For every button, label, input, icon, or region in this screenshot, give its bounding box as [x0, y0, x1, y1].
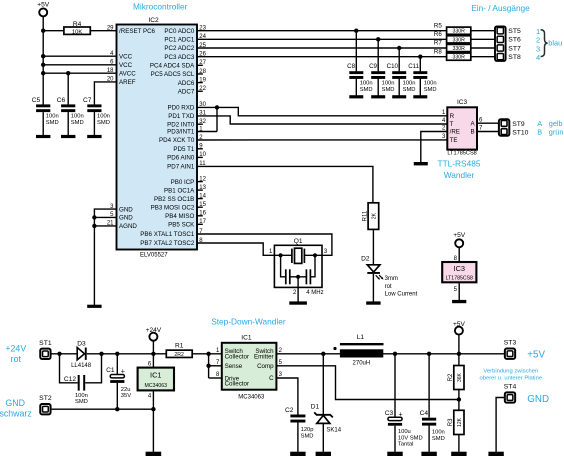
resistor R11: [363, 203, 379, 230]
connector ST4: [504, 384, 517, 403]
wire C5 to ground: [42, 112, 44, 135]
wire C3 lower lead: [394, 426, 396, 452]
connector ST5 label: [508, 28, 521, 35]
svg-text:R7: R7: [434, 40, 442, 47]
svg-text:PB4 MISO: PB4 MISO: [165, 213, 194, 220]
svg-text:R5: R5: [434, 22, 442, 29]
node junction AGND: [92, 224, 96, 228]
capacitor C7: [83, 97, 110, 126]
svg-text:blau: blau: [548, 39, 562, 48]
svg-text:/RESET PC6: /RESET PC6: [119, 28, 156, 35]
svg-text:IC2: IC2: [148, 17, 159, 24]
ground C11: [413, 95, 427, 98]
svg-text:IC1: IC1: [241, 335, 252, 342]
LED D2: [361, 255, 418, 297]
wire C7 to ground: [93, 112, 95, 135]
svg-text:C9: C9: [369, 63, 377, 70]
resistor R3: [448, 410, 464, 434]
svg-text:PB2 SS OC1B: PB2 SS OC1B: [154, 196, 194, 203]
wire R4 left lead: [43, 30, 64, 32]
svg-text:ST9: ST9: [512, 121, 525, 128]
svg-text:SMD: SMD: [97, 120, 110, 126]
wire C3 upper lead: [394, 354, 396, 418]
svg-text:PD6 AIN0: PD6 AIN0: [167, 155, 195, 162]
wire D1 upper lead: [322, 354, 324, 415]
resistor R8: [434, 48, 471, 60]
wire R3 to ground: [458, 435, 460, 452]
svg-text:Ein- / Ausgänge: Ein- / Ausgänge: [471, 3, 530, 13]
svg-text:PB3 MOSI OC2: PB3 MOSI OC2: [151, 204, 195, 211]
wire +5V to rail: [458, 334, 460, 354]
svg-text:1: 1: [536, 27, 540, 36]
wire IC3 B to ST10: [477, 131, 499, 133]
node junction feedback divider: [457, 397, 461, 401]
capacitor C4: [420, 410, 445, 442]
svg-text:ST2: ST2: [39, 395, 52, 402]
wire D1 lower lead: [322, 423, 324, 452]
wire IC1 pin4 to ground: [148, 390, 154, 452]
svg-text:Step-Down-Wandler: Step-Down-Wandler: [211, 316, 286, 326]
svg-text:10K: 10K: [72, 29, 82, 35]
node junction +5V/VCC pin6: [41, 63, 45, 67]
svg-text:R1: R1: [175, 342, 184, 349]
svg-text:100n: 100n: [382, 81, 395, 87]
wire PD0 RXD to IC3 R: [197, 107, 447, 115]
svg-text:PC1 ADC1: PC1 ADC1: [164, 37, 194, 44]
svg-text:SMD: SMD: [424, 87, 437, 93]
node junction C9: [376, 37, 380, 41]
wire C4 upper lead: [428, 354, 430, 418]
svg-text:Wandler: Wandler: [444, 170, 475, 180]
wire R7 to ST7: [471, 47, 495, 49]
label +5V output: [527, 349, 545, 360]
svg-text:100n: 100n: [97, 114, 110, 120]
svg-text:SMD: SMD: [301, 433, 314, 439]
svg-text:120p: 120p: [301, 427, 314, 433]
svg-text:L1: L1: [357, 334, 365, 341]
wire pin3 C to C2: [276, 378, 298, 415]
svg-text:C: C: [269, 375, 274, 382]
node junction IC1 pin1/7: [206, 352, 210, 356]
svg-text:4: 4: [536, 53, 540, 62]
connector ST3: [504, 339, 517, 358]
capacitor C3 (Tantal): [385, 410, 423, 447]
label blau: [548, 39, 562, 48]
svg-text:PD2 INT0: PD2 INT0: [167, 121, 195, 128]
wire R11 to D2: [372, 229, 374, 264]
node junction C3: [393, 352, 397, 356]
wire +5V rail vertical (top left): [42, 16, 44, 104]
ground ST4: [488, 452, 503, 456]
svg-text:PB7 XTAL2 TOSC2: PB7 XTAL2 TOSC2: [140, 240, 195, 247]
svg-text:Low Current: Low Current: [385, 291, 418, 297]
wire L1 to ST3 rail: [383, 353, 505, 355]
capacitor C1: [106, 367, 131, 399]
node junction C11: [418, 54, 422, 58]
capacitor C5: [32, 97, 59, 126]
svg-text:ADC7: ADC7: [178, 88, 195, 95]
svg-text:35V: 35V: [121, 393, 131, 399]
svg-text:100u: 100u: [398, 429, 411, 435]
svg-text:C2: C2: [285, 407, 294, 414]
svg-text:Q1: Q1: [294, 238, 303, 245]
svg-text:C7: C7: [83, 97, 92, 104]
svg-text:+24V: +24V: [5, 344, 26, 354]
wire PD7 AIN1 to R11: [197, 166, 373, 202]
svg-text:IC3: IC3: [457, 99, 468, 106]
svg-text:100n: 100n: [75, 393, 88, 399]
wire PC2 to R7: [197, 47, 447, 49]
wire C6 to AVCC: [67, 73, 69, 104]
wire C2 lower lead: [297, 423, 299, 452]
connector ST10 label: [512, 130, 528, 137]
ground C6: [61, 135, 75, 138]
connector ST6 label: [508, 37, 521, 44]
label pin number 2 (ST6): [536, 36, 540, 45]
svg-text:AGND: AGND: [119, 223, 137, 230]
wire D2 to ground: [372, 274, 374, 302]
capacitor C2: [285, 407, 314, 440]
IC IC1 MC34063 (main): [216, 335, 283, 401]
svg-text:B: B: [537, 128, 542, 137]
svg-text:R2: R2: [448, 373, 454, 381]
wire R2 to R3: [458, 390, 460, 411]
svg-text:D1: D1: [311, 403, 320, 410]
svg-text:100n: 100n: [424, 81, 437, 87]
svg-text:C3: C3: [385, 410, 394, 417]
label pin number 1 (ST5): [536, 27, 540, 36]
svg-text:SMD: SMD: [75, 399, 88, 405]
node junction pin4/GND rail: [151, 407, 155, 411]
node junction C1/GND rail: [115, 407, 119, 411]
svg-text:Emitter: Emitter: [254, 353, 274, 360]
label +24V rot: [5, 344, 26, 365]
svg-text:C1: C1: [106, 367, 115, 374]
svg-text:36K: 36K: [457, 372, 463, 382]
capacitor C12: [64, 375, 88, 405]
wire GND pin 5: [94, 216, 116, 218]
svg-text:PB0 ICP: PB0 ICP: [171, 179, 195, 186]
svg-text:18: 18: [107, 68, 114, 74]
resistor R1: [166, 342, 192, 358]
wire PB6 XTAL1 to Q1 pin3: [197, 234, 332, 255]
wire PB7 XTAL2 to Q1 pin1: [197, 243, 274, 255]
svg-text:330R: 330R: [452, 29, 465, 35]
svg-text:Collector: Collector: [225, 381, 249, 388]
svg-text:+: +: [399, 411, 403, 418]
svg-text:PC2 ADC2: PC2 ADC2: [164, 45, 194, 52]
svg-text:PB1 OC1A: PB1 OC1A: [164, 187, 195, 194]
svg-text:3: 3: [536, 44, 540, 53]
svg-text:GND: GND: [119, 206, 133, 213]
wire C9 upper lead: [377, 39, 379, 71]
label pin number 3 (ST7): [536, 44, 540, 53]
wire IC3 pin5 to ground: [454, 282, 460, 300]
node junction Sense: [206, 364, 210, 368]
svg-text:100n: 100n: [71, 114, 84, 120]
svg-text:SMD: SMD: [432, 436, 445, 442]
svg-text:R: R: [450, 113, 455, 120]
wire PC3 to R8: [197, 56, 447, 58]
svg-text:100n: 100n: [403, 81, 416, 87]
label GND schwarz: [0, 398, 32, 418]
connector ST8 label: [508, 54, 521, 61]
wire C4 lower lead: [428, 426, 430, 452]
svg-text:PD5 T1: PD5 T1: [173, 146, 194, 153]
svg-text:ST10: ST10: [512, 130, 528, 137]
ground IC2: [87, 305, 101, 308]
wire Comp feedback: [276, 366, 459, 400]
svg-text:PD7 AIN1: PD7 AIN1: [167, 164, 195, 171]
svg-text:Mikrocontroller: Mikrocontroller: [133, 1, 188, 11]
node junction +5V/R4: [41, 29, 45, 33]
wire C10 upper lead: [398, 48, 400, 71]
svg-text:+5V: +5V: [37, 1, 50, 8]
svg-text:C11: C11: [408, 63, 419, 70]
svg-text:TE: TE: [450, 137, 458, 144]
wire PD4 to IC3 TE: [197, 139, 447, 141]
ground C2: [290, 452, 305, 456]
svg-text:C12: C12: [64, 376, 76, 383]
node junction D1: [321, 352, 325, 356]
svg-text:oberer u. unterer Platine: oberer u. unterer Platine: [480, 376, 543, 382]
svg-text:C5: C5: [32, 97, 41, 104]
ground C7: [87, 135, 101, 138]
ground R3: [451, 452, 466, 456]
svg-text:330R: 330R: [452, 55, 465, 61]
wire ST1 to D3: [51, 353, 78, 355]
svg-text:20: 20: [107, 77, 114, 83]
wire AVCC pin 18: [43, 72, 116, 74]
svg-text:ELV05527: ELV05527: [140, 253, 168, 259]
svg-text:LT1785CS8: LT1785CS8: [447, 151, 476, 157]
capacitor C8: [347, 63, 372, 93]
ground D1: [316, 452, 331, 456]
svg-text:ST1: ST1: [39, 340, 52, 347]
svg-text:+5V: +5V: [527, 349, 545, 360]
svg-text:R8: R8: [434, 48, 442, 55]
connector ST1: [39, 340, 52, 359]
microcontroller IC2 ELV05527: [107, 17, 207, 259]
label B grün: [537, 128, 563, 137]
node junction C1: [115, 352, 119, 356]
wire C8 lower lead: [355, 79, 357, 96]
wire +24V node to IC1 pin6: [148, 354, 154, 368]
power +5V supply (IC3): [453, 232, 466, 247]
resistor R5: [434, 22, 471, 34]
wire /RE to ground: [421, 132, 448, 163]
svg-text:+24V: +24V: [146, 327, 162, 334]
wire unconnected pin stubs IC2 right: [197, 65, 203, 224]
svg-text:GND: GND: [5, 398, 25, 408]
svg-text:VCC: VCC: [119, 53, 133, 60]
power +5V supply (step-down): [453, 321, 466, 335]
svg-text:12K: 12K: [457, 417, 463, 427]
connector ST2: [39, 395, 52, 414]
crystal Q1 4MHz: [269, 238, 328, 302]
wire VCC pin 6: [43, 64, 116, 66]
svg-text:3mm: 3mm: [385, 276, 398, 282]
inductor L1: [333, 334, 383, 367]
svg-text:+5V: +5V: [453, 232, 466, 239]
svg-text:22u: 22u: [121, 387, 131, 393]
svg-text:+5V: +5V: [453, 321, 466, 328]
svg-text:PC4 ADC4 SDA: PC4 ADC4 SDA: [150, 63, 195, 70]
wire C1 upper lead: [116, 354, 118, 375]
svg-text:AREF: AREF: [119, 79, 136, 86]
wire C11 lower lead: [419, 79, 421, 96]
svg-text:GND: GND: [119, 215, 133, 222]
wire ST2 ground rail: [51, 408, 154, 410]
svg-text:MC34063: MC34063: [238, 394, 265, 400]
label Verbindung note: [480, 368, 543, 381]
svg-text:330R: 330R: [452, 37, 465, 43]
svg-text:ST3: ST3: [504, 339, 517, 346]
capacitor C10: [387, 63, 416, 93]
svg-text:100n: 100n: [432, 430, 445, 436]
label GND output: [527, 394, 549, 405]
svg-text:R3: R3: [448, 418, 454, 426]
wire RXD to PD3/INT1: [197, 107, 217, 131]
svg-text:R11: R11: [363, 210, 369, 221]
IC IC1 power block: [138, 368, 174, 391]
svg-text:PD4 XCK T0: PD4 XCK T0: [159, 137, 195, 144]
IC IC3 power block: [442, 262, 476, 282]
svg-text:ST5: ST5: [508, 28, 521, 35]
svg-text:330R: 330R: [452, 46, 465, 52]
svg-text:rot: rot: [385, 284, 392, 290]
svg-text:TTL-RS485: TTL-RS485: [438, 158, 481, 168]
svg-text:IC1: IC1: [150, 370, 162, 379]
label Ein-/Ausgänge heading: [471, 3, 530, 13]
svg-text:C10: C10: [387, 63, 399, 70]
svg-text:D2: D2: [361, 255, 370, 262]
diode D1 SK14 (Schottky): [311, 403, 342, 433]
svg-text:ST8: ST8: [508, 54, 521, 61]
svg-text:LT1785CS8: LT1785CS8: [446, 276, 473, 282]
wire R4 to /RESET pin 29: [90, 30, 116, 32]
wire AGND pin 21: [94, 225, 116, 227]
svg-text:ST4: ST4: [504, 384, 517, 391]
wire AREF pin 20 to C7: [94, 81, 116, 104]
wire ST4 to ground: [496, 398, 505, 452]
resistor R6: [434, 31, 471, 43]
wire C11 upper lead: [419, 57, 421, 72]
svg-text:VCC: VCC: [119, 62, 133, 69]
label A gelb: [537, 119, 562, 128]
svg-text:10V SMD: 10V SMD: [398, 435, 423, 441]
svg-text:ST6: ST6: [508, 37, 521, 44]
wire rail to Sense/Drive: [209, 354, 222, 378]
wire IC2 ground rail vertical: [93, 208, 95, 305]
capacitor C6: [57, 97, 84, 126]
svg-text:2K: 2K: [371, 212, 377, 219]
node junction C10: [397, 46, 401, 50]
node junction +5V/VCC pin4: [41, 54, 45, 58]
wire R5 to ST5: [471, 30, 495, 32]
label pin number 4 (ST8): [536, 53, 540, 62]
svg-text:MC34063: MC34063: [145, 383, 168, 389]
svg-text:2: 2: [536, 36, 540, 45]
svg-text:Comp: Comp: [257, 363, 274, 370]
svg-text:SMD: SMD: [71, 120, 84, 126]
svg-text:GND: GND: [527, 394, 549, 405]
svg-text:B: B: [470, 129, 474, 136]
wire C12 branch: [60, 354, 102, 383]
svg-text:schwarz: schwarz: [0, 408, 32, 418]
wire C1 lower lead: [116, 383, 118, 409]
wire R1 to IC1: [192, 353, 222, 355]
connector ST7 label: [508, 45, 521, 52]
svg-text:C8: C8: [347, 63, 355, 70]
resistor R4: [64, 21, 90, 35]
diode D3 LL4148: [71, 340, 92, 369]
svg-text:PD3/INT1: PD3/INT1: [167, 129, 195, 136]
label TTL-RS485 Wandler heading: [438, 158, 481, 180]
node junction GND5: [92, 215, 96, 219]
svg-text:ADC6: ADC6: [178, 80, 195, 87]
svg-text:rot: rot: [11, 354, 22, 364]
svg-text:D3: D3: [77, 340, 86, 347]
svg-text:+: +: [121, 368, 125, 375]
wire C9 lower lead: [377, 79, 379, 96]
wire PC0 to R5: [197, 30, 447, 32]
svg-text:AVCC: AVCC: [119, 70, 136, 77]
svg-text:Verbindung zwischen: Verbindung zwischen: [483, 368, 538, 374]
svg-text:SMD: SMD: [46, 120, 59, 126]
svg-text:LL4148: LL4148: [71, 363, 92, 369]
node junction C12 right: [99, 352, 103, 356]
node junction RXD/INT1: [215, 105, 219, 109]
svg-text:PD1 TXD: PD1 TXD: [168, 113, 195, 120]
node junction ST1/C12: [57, 352, 61, 356]
wire C8 upper lead: [355, 31, 357, 72]
svg-text:grün: grün: [549, 128, 564, 137]
connector header ST5-ST8: [495, 26, 506, 61]
svg-text:2R2: 2R2: [174, 352, 184, 358]
ground C4: [421, 452, 436, 456]
svg-text:IC3: IC3: [454, 264, 466, 273]
connector ST9 label: [512, 121, 525, 128]
label Mikrocontroller heading: [133, 1, 188, 11]
svg-text:/RE: /RE: [450, 129, 460, 136]
node junction C8: [354, 29, 358, 33]
wire +24V to rail: [152, 340, 154, 353]
wire VCC pin 4: [43, 55, 116, 57]
ground IC3 power: [452, 300, 466, 303]
wire PD1 TXD to IC3 T: [197, 116, 447, 124]
node junction C4: [427, 352, 431, 356]
wire rail to R2: [458, 354, 460, 366]
wire C6 to ground: [67, 112, 69, 135]
transceiver IC3 LT1785CS8: [442, 99, 483, 157]
node junction +5V/R2: [457, 352, 461, 356]
svg-text:PC5 ADC5 SCL: PC5 ADC5 SCL: [151, 71, 195, 78]
svg-text:T: T: [450, 121, 454, 128]
ground C8: [349, 95, 363, 98]
ground Q1: [289, 301, 307, 304]
brace blau group: [541, 30, 548, 57]
svg-text:SMD: SMD: [403, 87, 416, 93]
svg-text:100n: 100n: [46, 114, 59, 120]
svg-text:PB6 XTAL1 TOSC1: PB6 XTAL1 TOSC1: [140, 231, 195, 238]
svg-text:PD0 RXD: PD0 RXD: [167, 105, 194, 112]
label Step-Down-Wandler heading: [211, 316, 286, 326]
power +5V supply symbol (top left): [37, 1, 50, 16]
wire PC1 to R6: [197, 38, 447, 40]
capacitor C9: [369, 63, 394, 93]
wire GND pin 3: [94, 208, 116, 210]
